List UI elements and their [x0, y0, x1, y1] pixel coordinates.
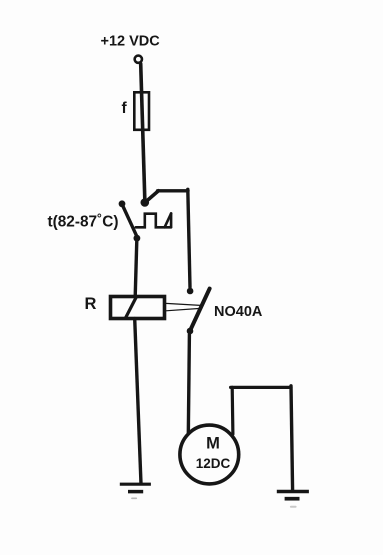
svg-text:f: f — [122, 100, 128, 117]
svg-text:R: R — [85, 295, 97, 313]
svg-text:M: M — [206, 435, 220, 453]
svg-text:t(82-87˚C): t(82-87˚C) — [48, 214, 119, 231]
svg-text:+12 VDC: +12 VDC — [101, 33, 161, 49]
svg-text:NO40A: NO40A — [214, 304, 263, 320]
svg-text:12DC: 12DC — [196, 456, 231, 471]
